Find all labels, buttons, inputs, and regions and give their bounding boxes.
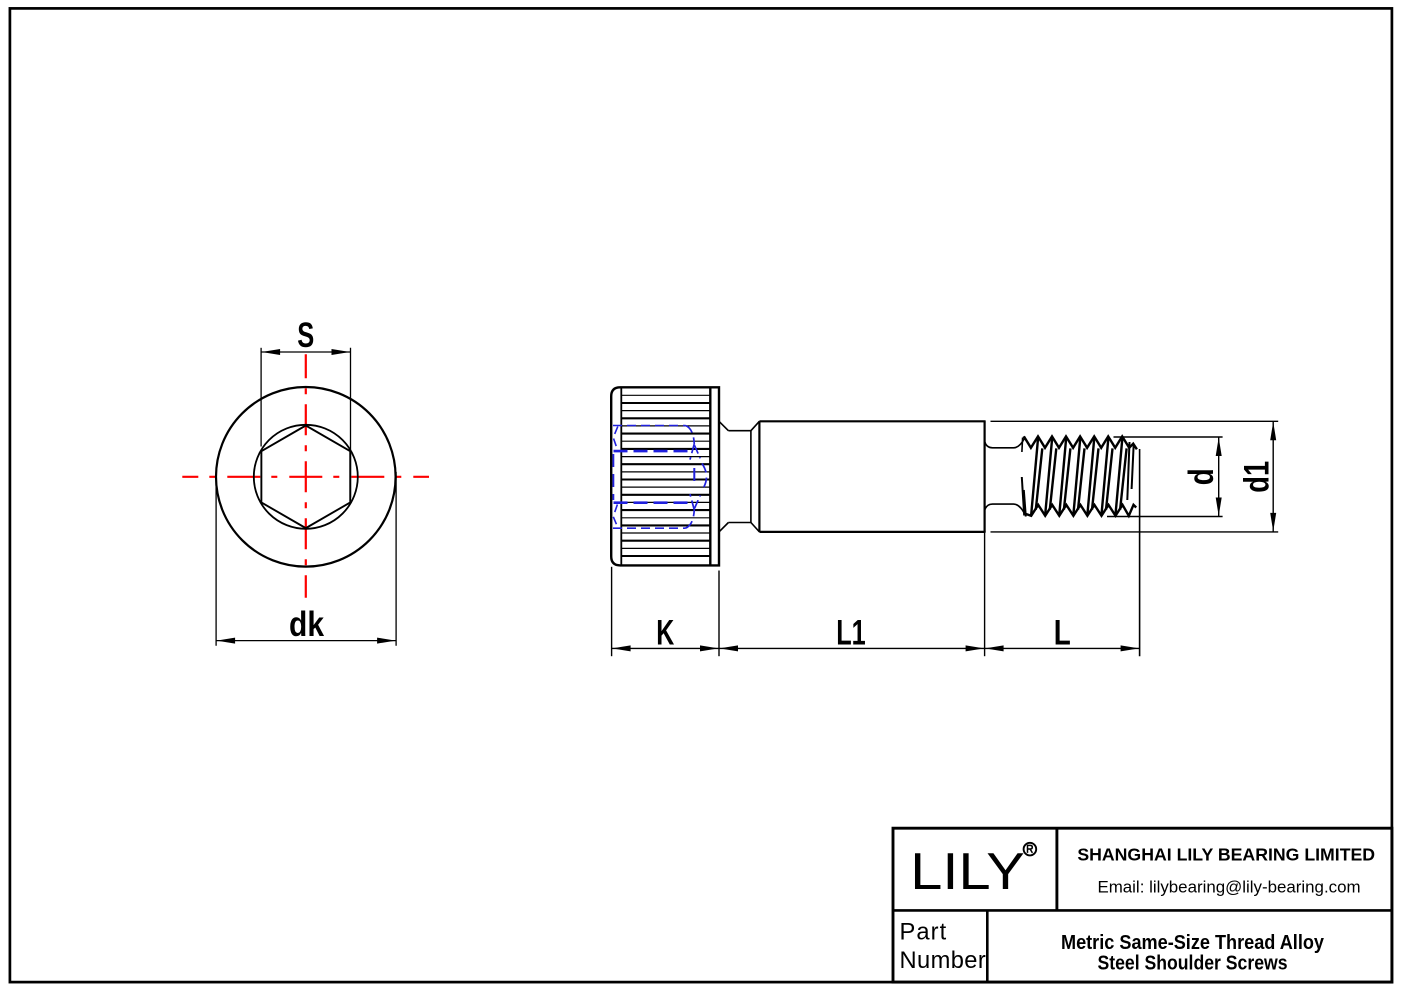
shoulder left face — [758, 421, 760, 532]
shoulder chamfer top — [751, 421, 760, 430]
hidden socket cone tip arc (blue) — [702, 464, 707, 491]
svg-text:d: d — [1182, 468, 1221, 485]
svg-text:d1: d1 — [1238, 461, 1277, 493]
d1 top extension line — [991, 420, 1279, 422]
hidden hex socket top edge (blue dashed) — [613, 425, 685, 427]
title block divider logo/company — [1055, 828, 1058, 910]
svg-text:K: K — [656, 613, 674, 652]
K L1 L dimension line — [612, 647, 1140, 649]
thread flank lines — [1031, 438, 1038, 515]
neck end vertical — [750, 431, 752, 523]
title block outer box — [893, 828, 1392, 982]
head left band line — [620, 387, 622, 565]
K/L1 shared extension line — [718, 571, 720, 657]
thread top crest profile — [1024, 436, 1137, 449]
hex socket hexagon (front view) — [261, 426, 350, 529]
screw head outer circle (front view) — [216, 387, 396, 567]
thread bottom crest profile — [1025, 505, 1137, 516]
hidden socket mouth chamfer lower (blue) — [613, 505, 618, 528]
shoulder chamfer bottom — [751, 523, 760, 532]
hidden socket cone top (blue) — [685, 426, 694, 445]
head right band line — [709, 387, 711, 565]
screw head outline (side view) — [611, 387, 719, 565]
red vertical centerline — [305, 354, 307, 598]
L1/L shared extension line — [984, 532, 986, 656]
neck bottom line — [728, 522, 751, 524]
dimension S line with arrows — [261, 351, 350, 353]
dimension dk extension lines — [215, 472, 217, 646]
title block divider partnumber/title — [986, 910, 989, 982]
thread undercut top — [985, 438, 1025, 447]
hidden socket mouth vertical (blue) — [612, 454, 614, 500]
svg-text:Metric Same-Size Thread Alloy: Metric Same-Size Thread Alloy — [1061, 932, 1325, 954]
shoulder top line — [759, 420, 985, 422]
dimension S extension lines — [260, 348, 262, 447]
red horizontal centerline — [182, 476, 429, 478]
dimension d line with arrows — [1218, 437, 1220, 517]
neck chamfer top-left — [719, 421, 728, 430]
svg-text:Steel Shoulder Screws: Steel Shoulder Screws — [1098, 952, 1288, 974]
hidden socket cone bottom (blue) — [685, 509, 694, 528]
svg-text:SHANGHAI LILY BEARING LIMITED: SHANGHAI LILY BEARING LIMITED — [1077, 844, 1375, 864]
neck top line — [728, 430, 751, 432]
svg-text:dk: dk — [289, 605, 324, 644]
dimension d1 line with arrows — [1272, 421, 1274, 532]
hidden hex socket bottom edge (blue dashed) — [613, 527, 685, 529]
svg-text:Part: Part — [900, 919, 948, 945]
svg-text:Email: lilybearing@lily-bearin: Email: lilybearing@lily-bearing.com — [1097, 878, 1360, 897]
thread undercut bottom — [985, 504, 1025, 513]
hidden socket mouth chamfer upper (blue) — [613, 427, 618, 450]
svg-text:Number: Number — [900, 948, 987, 974]
registered trademark symbol — [1024, 843, 1037, 856]
svg-text:S: S — [297, 316, 314, 355]
d bottom extension line — [1107, 516, 1223, 518]
svg-text:LILY: LILY — [910, 842, 1025, 900]
hex socket chamfer circle (front view) — [254, 425, 358, 529]
K left extension line — [611, 567, 613, 656]
shoulder end face — [983, 421, 985, 532]
thread end edge / L extension line — [1139, 449, 1141, 656]
d top extension line — [1114, 436, 1223, 438]
dimension dk line with arrows — [216, 640, 396, 642]
neck chamfer bottom-left — [719, 523, 728, 532]
svg-text:L1: L1 — [836, 613, 866, 652]
hidden hex socket upper-mid edge (blue dashed) — [614, 450, 689, 453]
svg-text:L: L — [1054, 613, 1071, 652]
hidden hex socket lower-mid edge (blue dashed) — [614, 501, 689, 504]
title block horizontal divider — [893, 909, 1392, 912]
head knurl lines — [621, 394, 710, 396]
shoulder bottom line — [759, 531, 985, 533]
d1 bottom extension line — [991, 531, 1279, 533]
